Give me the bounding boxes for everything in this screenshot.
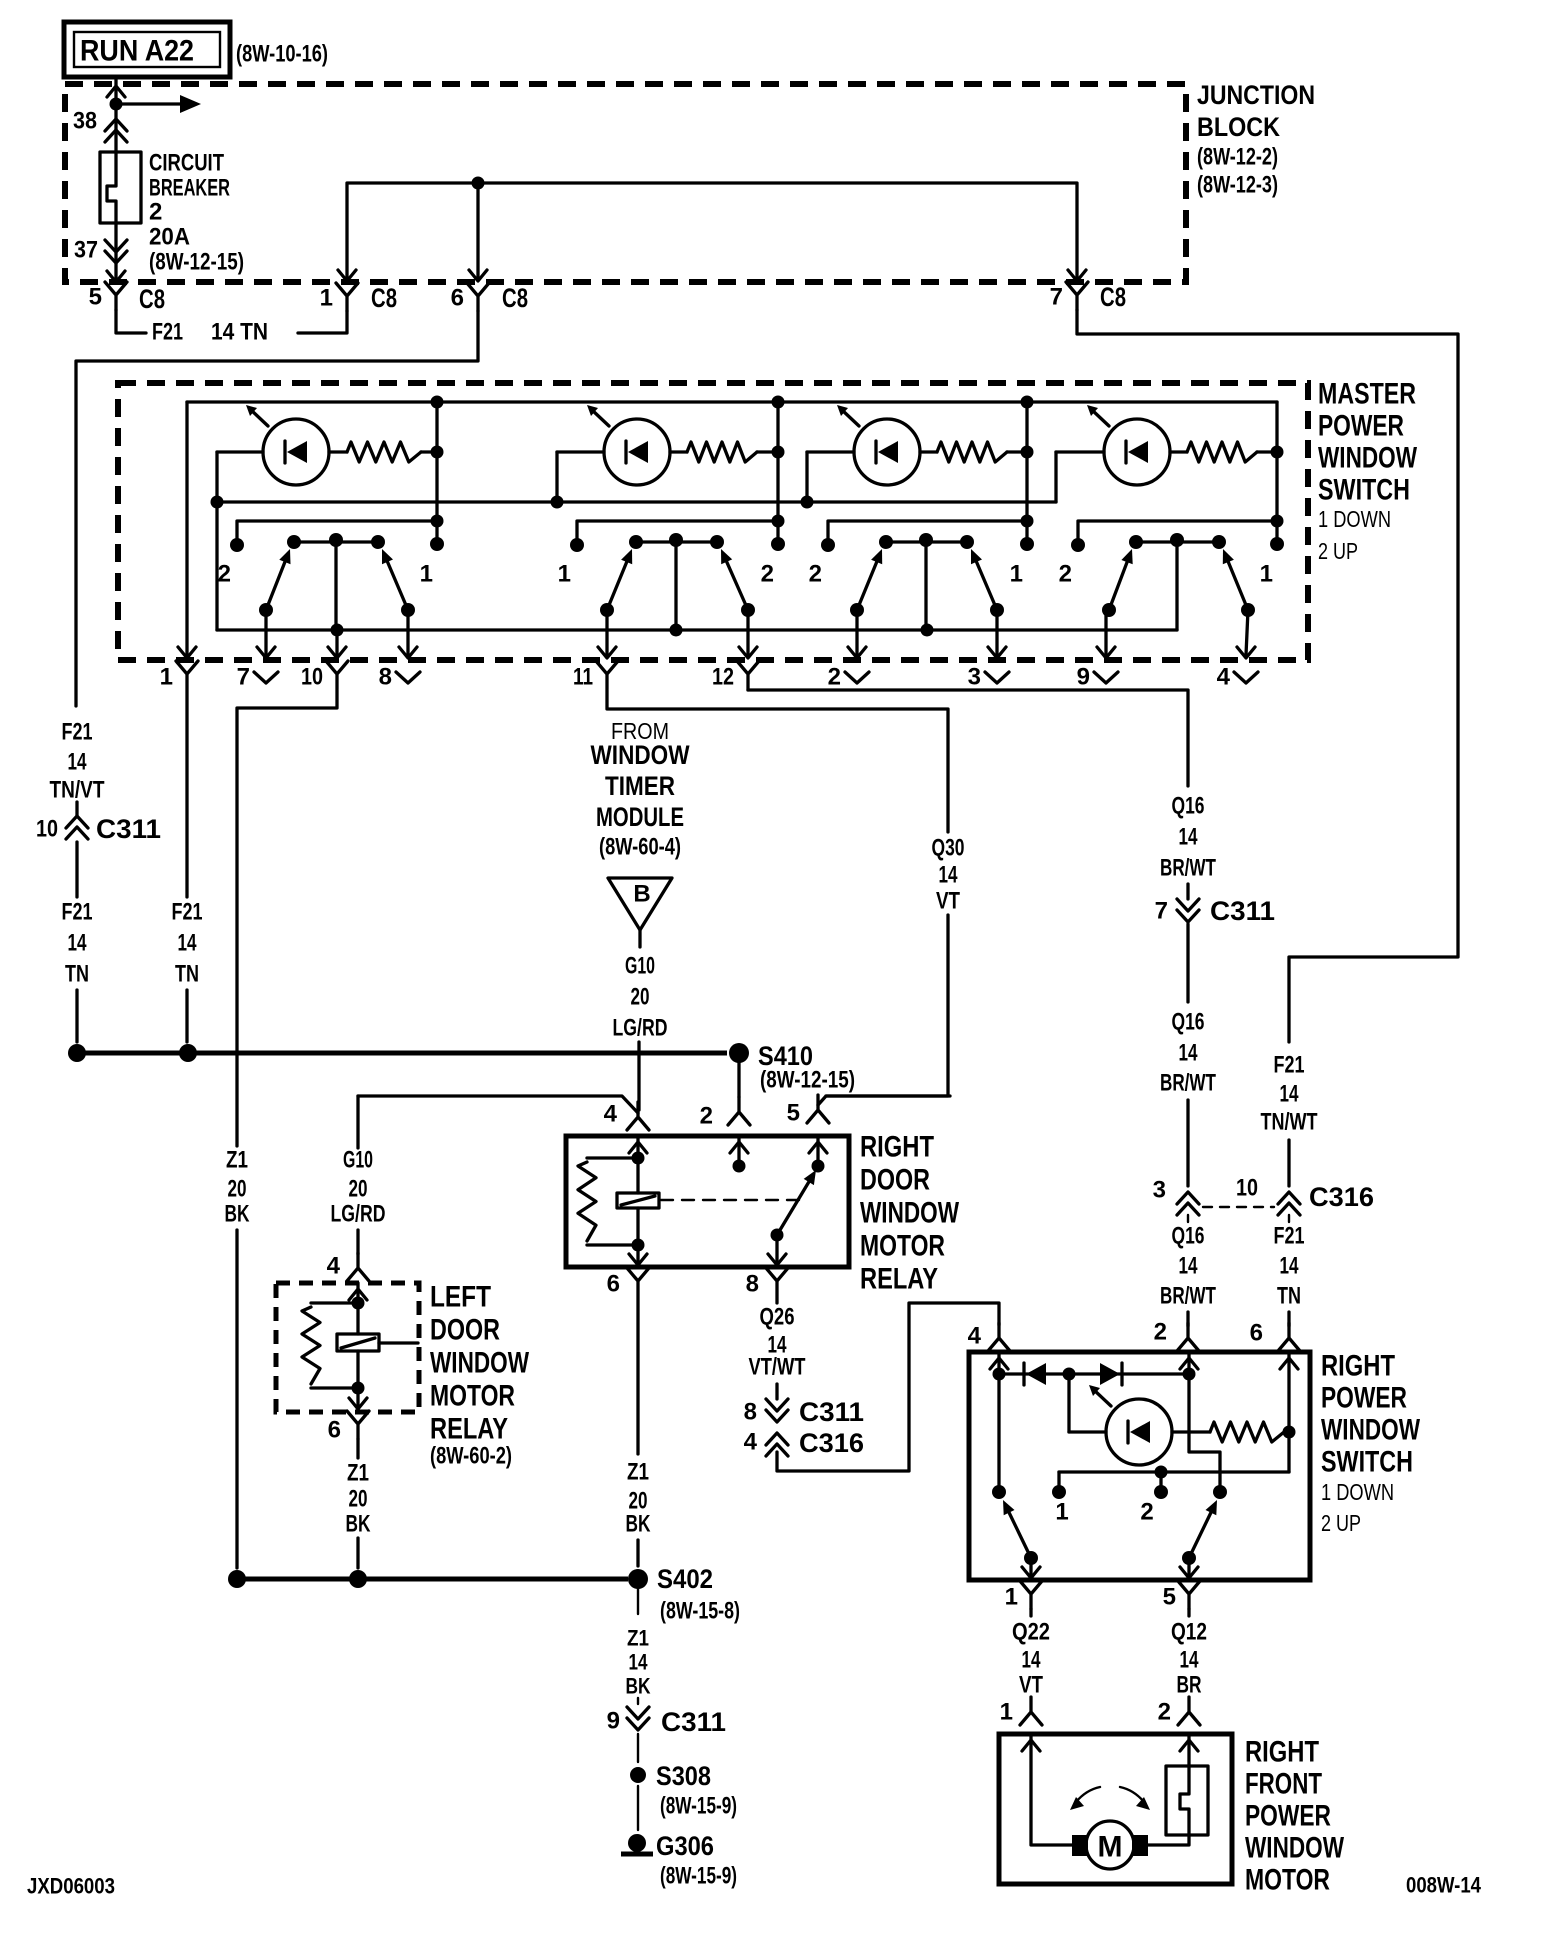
wire label F21 14 TN right bbox=[1274, 1223, 1305, 1310]
motor circuit breaker bbox=[1166, 1766, 1208, 1835]
switch contact dot left unit 4 bbox=[1071, 538, 1085, 552]
wire F21 below C316 bbox=[1288, 1215, 1290, 1222]
switch mover left unit 1 bbox=[266, 549, 291, 610]
svg-text:9: 9 bbox=[1077, 664, 1090, 691]
splice node Z1 left bbox=[228, 1570, 246, 1588]
motor armature M bbox=[1072, 1821, 1148, 1869]
svg-text:RIGHT: RIGHT bbox=[1245, 1736, 1319, 1769]
svg-text:F21: F21 bbox=[62, 899, 93, 926]
wire pin5 into switch contact bbox=[816, 1136, 819, 1166]
mover pivot dot left unit 4 bbox=[1102, 603, 1116, 617]
svg-text:14: 14 bbox=[939, 862, 958, 889]
wire Q30 down to relay pin5 bbox=[826, 915, 948, 1096]
svg-text:DOOR: DOOR bbox=[860, 1164, 930, 1197]
svg-text:Q22: Q22 bbox=[1012, 1619, 1050, 1646]
svg-text:1: 1 bbox=[160, 664, 173, 691]
svg-text:6: 6 bbox=[451, 285, 464, 312]
svg-text:8: 8 bbox=[746, 1271, 759, 1298]
arrow at edge pin right unit 4 bbox=[1237, 647, 1255, 658]
branch arrow to other circuits bbox=[116, 95, 201, 113]
connector pin 12 master switch bbox=[737, 661, 759, 689]
connector C311 cavity 7 bbox=[1177, 899, 1199, 922]
switch mover right right-switch bbox=[1189, 1500, 1217, 1558]
svg-text:RUN A22: RUN A22 bbox=[80, 35, 194, 68]
svg-text:SWITCH: SWITCH bbox=[1318, 474, 1410, 507]
wire RUN A22 to circuit breaker pin 38 bbox=[114, 77, 117, 152]
svg-text:11: 11 bbox=[573, 664, 593, 691]
switch mover right unit 4 bbox=[1223, 549, 1248, 610]
wire Q16 to C316 bbox=[1186, 1100, 1189, 1186]
wire label Z1 20 BK column bbox=[225, 1147, 250, 1228]
diode rail bbox=[999, 1372, 1189, 1375]
wire mover left to pin unit 2 bbox=[605, 610, 608, 655]
svg-text:S402: S402 bbox=[657, 1564, 713, 1594]
illumination lamp unit 3 bbox=[837, 405, 920, 485]
svg-text:2: 2 bbox=[1158, 1699, 1171, 1726]
junction node rail unit2 bbox=[551, 496, 564, 509]
svg-text:C311: C311 bbox=[96, 814, 161, 844]
svg-text:BK: BK bbox=[346, 1511, 371, 1538]
wire Z1 to S308 bbox=[637, 1734, 639, 1762]
connector pin 1 right switch bbox=[1020, 1581, 1042, 1609]
svg-text:C311: C311 bbox=[661, 1707, 726, 1737]
connector pin 5 right relay bbox=[807, 1095, 829, 1123]
right power window switch box bbox=[969, 1352, 1310, 1580]
wire F21 below C311 bbox=[75, 842, 78, 897]
svg-text:14 TN: 14 TN bbox=[211, 319, 268, 346]
mover pivot dot left bbox=[1024, 1551, 1038, 1565]
wire lamp feed left drop unit 1 bbox=[215, 452, 218, 630]
splice S410 bbox=[729, 1043, 749, 1063]
circuit breaker label bbox=[149, 150, 244, 276]
svg-text:10: 10 bbox=[301, 664, 323, 691]
resistor unit 1 bbox=[347, 442, 421, 462]
svg-text:(8W-15-8): (8W-15-8) bbox=[660, 1598, 740, 1625]
svg-text:LG/RD: LG/RD bbox=[331, 1201, 386, 1228]
svg-text:SWITCH: SWITCH bbox=[1321, 1446, 1413, 1479]
connector pin 8 master switch bbox=[396, 672, 420, 683]
switch contact dot 2 bbox=[1154, 1485, 1168, 1499]
motor rotation arrows bbox=[1070, 1787, 1150, 1810]
junction left relay coil bottom bbox=[352, 1382, 365, 1395]
wire pin2 jog to contact bbox=[1189, 1374, 1220, 1492]
rocker bar unit 4 bbox=[1136, 540, 1219, 543]
svg-text:1: 1 bbox=[1005, 1584, 1018, 1611]
svg-text:Q12: Q12 bbox=[1171, 1619, 1207, 1646]
svg-text:14: 14 bbox=[68, 749, 87, 776]
switch contact dot right unit 1 bbox=[430, 537, 444, 551]
wire F21 to splice left bbox=[75, 990, 78, 1042]
switch mover left right-switch bbox=[1003, 1500, 1031, 1558]
ground G306 bbox=[621, 1834, 653, 1854]
wire mover right to pin unit 1 bbox=[406, 610, 409, 655]
wire Z1 stub above C311 bbox=[637, 1698, 639, 1704]
arrow at junction block edge C8-1 bbox=[338, 270, 356, 281]
rocker bar unit 2 bbox=[636, 540, 717, 543]
right front power window motor box bbox=[999, 1734, 1232, 1884]
wire to lamp unit 4 bbox=[1056, 450, 1104, 453]
wire to lamp unit 3 bbox=[807, 450, 854, 453]
svg-text:008W-14: 008W-14 bbox=[1406, 1873, 1482, 1898]
wire breaker to armature bbox=[1148, 1835, 1189, 1845]
wire Z1 below S402 bbox=[637, 1589, 639, 1614]
svg-text:14: 14 bbox=[1280, 1253, 1299, 1280]
wire S410 to relay pin 2 bbox=[737, 1063, 740, 1097]
svg-text:MODULE: MODULE bbox=[596, 802, 684, 832]
wire label Z1 14 BK bbox=[626, 1626, 651, 1699]
master power window switch label bbox=[1318, 378, 1418, 565]
svg-text:C311: C311 bbox=[1210, 896, 1275, 926]
switch mover right unit 2 bbox=[721, 549, 748, 610]
fuse source box RUN A22 bbox=[64, 22, 230, 77]
svg-text:1: 1 bbox=[1010, 561, 1023, 588]
svg-text:4: 4 bbox=[604, 1101, 618, 1128]
wire Q16 stub bbox=[1186, 884, 1189, 899]
svg-text:2: 2 bbox=[1140, 1499, 1153, 1526]
arrow out of relay pin 6 bbox=[629, 1254, 647, 1265]
rocker bar unit 3 bbox=[886, 540, 967, 543]
switch contact dot common left bbox=[992, 1485, 1006, 1499]
connector C316 cavity 3 bbox=[1177, 1192, 1199, 1215]
wire resistor to vertical unit 2 bbox=[757, 450, 778, 453]
arrow at edge pin left unit 1 bbox=[257, 647, 275, 658]
wire label G10 20 LG/RD left bbox=[331, 1147, 386, 1228]
wire label Z1 20 BK left relay bbox=[346, 1460, 371, 1538]
wire label Q22 14 VT bbox=[1012, 1619, 1050, 1699]
junction diode rail right bbox=[1183, 1368, 1196, 1381]
wire pin2 into diode rail bbox=[1187, 1352, 1190, 1374]
svg-text:RELAY: RELAY bbox=[860, 1263, 938, 1296]
wire Z1 to S402 bbox=[636, 1540, 639, 1566]
wire Q22 stub bbox=[1029, 1609, 1032, 1616]
connector pin 7 master switch bbox=[254, 672, 278, 683]
svg-text:Q16: Q16 bbox=[1172, 1009, 1205, 1036]
svg-text:JUNCTION: JUNCTION bbox=[1197, 80, 1315, 110]
svg-text:5: 5 bbox=[1163, 1584, 1176, 1611]
svg-text:8: 8 bbox=[744, 1399, 757, 1426]
wire label Q16 14 BR/WT upper bbox=[1160, 793, 1216, 882]
svg-text:1: 1 bbox=[1260, 561, 1273, 588]
svg-text:MOTOR: MOTOR bbox=[1245, 1864, 1330, 1897]
junction node resistor unit 4 bbox=[1271, 446, 1284, 459]
wire arm to pin 8 bbox=[775, 1235, 778, 1267]
wire Z1 from pin10 jog left down bbox=[237, 690, 337, 1146]
svg-text:3: 3 bbox=[968, 664, 981, 691]
wire label Q26 14 VT/WT bbox=[749, 1304, 806, 1381]
svg-text:(8W-12-3): (8W-12-3) bbox=[1197, 172, 1278, 199]
svg-text:14: 14 bbox=[178, 930, 197, 957]
svg-text:C316: C316 bbox=[1309, 1182, 1374, 1212]
arrow at junction block edge pin 37 bbox=[107, 271, 125, 282]
resistor unit 3 bbox=[937, 442, 1007, 462]
svg-text:14: 14 bbox=[1179, 1040, 1198, 1067]
svg-text:RIGHT: RIGHT bbox=[860, 1131, 934, 1164]
wire label G10 20 LG/RD bbox=[613, 953, 668, 1042]
svg-text:CIRCUIT: CIRCUIT bbox=[149, 150, 224, 177]
wire to lamp unit 2 bbox=[557, 450, 604, 453]
junction node top rail unit3 bbox=[1021, 396, 1034, 409]
arrow out of relay pin 8 bbox=[768, 1254, 786, 1265]
svg-text:Z1: Z1 bbox=[627, 1459, 649, 1486]
wire G10 branch to left relay bbox=[358, 1096, 638, 1113]
svg-text:B: B bbox=[633, 881, 650, 908]
arrow into relay pin 2 bbox=[730, 1142, 748, 1153]
window timer module label bbox=[591, 718, 690, 861]
svg-text:RELAY: RELAY bbox=[430, 1413, 508, 1446]
wire G10 branch down bbox=[356, 1096, 359, 1148]
svg-text:2: 2 bbox=[809, 561, 822, 588]
switch contact dot left unit 2 bbox=[570, 538, 584, 552]
switch mover left unit 2 bbox=[607, 549, 632, 610]
switch mover right unit 3 bbox=[971, 549, 997, 610]
svg-text:MASTER: MASTER bbox=[1318, 378, 1416, 411]
svg-text:7: 7 bbox=[237, 664, 250, 691]
svg-text:1: 1 bbox=[320, 285, 333, 312]
svg-text:VT: VT bbox=[1019, 1672, 1043, 1699]
junction node contact rail unit 3 bbox=[1021, 515, 1034, 528]
wire pin2 stub inside relay bbox=[737, 1136, 740, 1166]
junction node resistor unit 2 bbox=[772, 446, 785, 459]
junction block label bbox=[1197, 80, 1315, 199]
svg-text:Z1: Z1 bbox=[347, 1460, 369, 1487]
contact rail unit 1 bbox=[237, 521, 437, 545]
connector pin 2 master switch bbox=[845, 672, 869, 683]
wire resistor to vertical unit 1 bbox=[421, 450, 437, 453]
svg-text:WINDOW: WINDOW bbox=[860, 1197, 960, 1230]
svg-text:WINDOW: WINDOW bbox=[1318, 442, 1418, 475]
wire rocker common drop unit 3 bbox=[924, 540, 927, 630]
arrow into relay pin 4 bbox=[629, 1142, 647, 1153]
wire resistor to vertical unit 3 bbox=[1007, 450, 1027, 453]
junction node bottom rail unit2 bbox=[670, 624, 683, 637]
right front power window motor label bbox=[1245, 1736, 1345, 1897]
svg-text:TN/WT: TN/WT bbox=[1261, 1109, 1318, 1136]
connector pin 4 right switch bbox=[988, 1323, 1010, 1351]
wire F21 stub above C311 bbox=[75, 802, 78, 817]
svg-text:2 UP: 2 UP bbox=[1318, 538, 1358, 564]
svg-text:BK: BK bbox=[626, 1511, 651, 1538]
svg-text:9: 9 bbox=[607, 1708, 620, 1735]
svg-text:BREAKER: BREAKER bbox=[149, 175, 230, 202]
connector pin 4 right relay bbox=[627, 1102, 649, 1130]
svg-text:7: 7 bbox=[1155, 898, 1168, 925]
wire mover to pin 5 bbox=[1187, 1558, 1190, 1580]
svg-text:20: 20 bbox=[349, 1486, 368, 1513]
wire Q16 below C316 bbox=[1187, 1215, 1189, 1222]
svg-text:RIGHT: RIGHT bbox=[1321, 1350, 1395, 1383]
svg-text:C8: C8 bbox=[139, 284, 165, 314]
splice node Z1 middle bbox=[349, 1570, 367, 1588]
svg-text:4: 4 bbox=[968, 1323, 982, 1350]
connector pin 6 right relay bbox=[627, 1268, 649, 1296]
splice S402 bbox=[628, 1569, 648, 1589]
wire Q30 into pin 5 bbox=[818, 1096, 950, 1105]
switch contact dot left unit 1 bbox=[230, 538, 244, 552]
connector C8 cavity 1 bbox=[336, 283, 358, 311]
svg-text:37: 37 bbox=[74, 237, 98, 264]
junction coil bottom bbox=[632, 1239, 645, 1252]
resistor unit 4 bbox=[1187, 442, 1257, 462]
svg-text:14: 14 bbox=[1179, 1253, 1198, 1280]
svg-text:20: 20 bbox=[631, 984, 650, 1011]
rocker bar unit 1 bbox=[294, 540, 378, 543]
wire motor pin1 to armature bbox=[1031, 1734, 1072, 1845]
junction node contact rail unit 4 bbox=[1271, 515, 1284, 528]
double chevron pin 37 bbox=[105, 240, 127, 263]
svg-text:2: 2 bbox=[1059, 561, 1072, 588]
illumination lamp unit 2 bbox=[587, 405, 670, 485]
svg-text:(8W-60-2): (8W-60-2) bbox=[430, 1443, 512, 1470]
wire Q26 stub bbox=[775, 1297, 778, 1303]
connector C311 cavity 8 bbox=[766, 1399, 788, 1422]
svg-text:MOTOR: MOTOR bbox=[860, 1230, 945, 1263]
junction node rail unit1 bbox=[211, 496, 224, 509]
illumination common rail bbox=[217, 500, 1056, 503]
wire label Q30 14 VT bbox=[932, 835, 965, 915]
right door window motor relay label bbox=[860, 1131, 960, 1296]
wire Z1 from relay pin6 bbox=[636, 1297, 639, 1454]
arrow into junction block at RUN A22 feed bbox=[107, 86, 125, 97]
svg-text:14: 14 bbox=[629, 1650, 649, 1675]
svg-text:4: 4 bbox=[1217, 664, 1231, 691]
switch contact dot right mover bbox=[1213, 1485, 1227, 1499]
svg-text:Q30: Q30 bbox=[932, 835, 965, 862]
wire relay resistor bottom bbox=[587, 1243, 638, 1246]
svg-text:2: 2 bbox=[149, 199, 162, 226]
junction resistor right end bbox=[1283, 1426, 1296, 1439]
illumination lamp unit 4 bbox=[1087, 405, 1170, 485]
wire circuit breaker pin 37 to connector C8 bbox=[114, 223, 117, 282]
connector pin 4 left relay bbox=[347, 1253, 369, 1281]
mover pivot dot right unit 1 bbox=[401, 603, 415, 617]
wire mover left to pin unit 3 bbox=[855, 610, 858, 655]
switch common bottom rail bbox=[217, 628, 1177, 631]
wire rocker common to pin 10 unit 1 bbox=[335, 630, 338, 655]
arrow at edge pin middle unit 1 bbox=[328, 647, 346, 658]
resistor unit 2 bbox=[687, 442, 757, 462]
svg-text:JXD06003: JXD06003 bbox=[27, 1874, 115, 1899]
diode D2 cathode-right bbox=[1100, 1363, 1122, 1385]
svg-text:VT/WT: VT/WT bbox=[749, 1354, 806, 1381]
wire resistor to vertical unit 4 bbox=[1257, 450, 1277, 453]
junction node resistor unit 1 bbox=[431, 446, 444, 459]
connector C316 cavity 10 bbox=[1278, 1192, 1300, 1215]
svg-text:7: 7 bbox=[1050, 284, 1063, 311]
svg-text:2: 2 bbox=[218, 561, 231, 588]
svg-text:2: 2 bbox=[700, 1103, 713, 1130]
svg-text:F21: F21 bbox=[172, 899, 203, 926]
wire left relay coil to pin 6 bbox=[356, 1388, 359, 1410]
svg-text:BR/WT: BR/WT bbox=[1160, 855, 1216, 882]
connector pin 2 motor bbox=[1178, 1697, 1200, 1725]
connector pin 4 master switch bbox=[1234, 672, 1258, 683]
svg-text:TIMER: TIMER bbox=[605, 771, 675, 801]
wire Q12 stub2 bbox=[1188, 1697, 1190, 1700]
wire Q26 to right switch pin 4 bbox=[777, 1303, 999, 1471]
svg-text:C8: C8 bbox=[371, 283, 397, 313]
switch mover left unit 3 bbox=[857, 549, 882, 610]
wire lamp feed left drop unit 3 bbox=[805, 452, 808, 502]
wire lamp to resistor right switch bbox=[1172, 1430, 1210, 1433]
switch contact dot right unit 2 bbox=[771, 537, 785, 551]
junction node at pin 38 tap bbox=[110, 98, 123, 111]
bus wire inside junction block bbox=[347, 183, 1077, 280]
wire label Q16 14 BR/WT lower bbox=[1160, 1223, 1216, 1310]
junction node contact rail unit 2 bbox=[772, 515, 785, 528]
svg-text:8: 8 bbox=[379, 664, 392, 691]
svg-text:DOOR: DOOR bbox=[430, 1314, 500, 1347]
left door window motor relay label bbox=[430, 1281, 530, 1470]
circuit breaker 2 bbox=[100, 152, 141, 223]
left relay coil bbox=[337, 1303, 418, 1388]
svg-text:4: 4 bbox=[744, 1429, 758, 1456]
double chevron pin 38 bbox=[105, 119, 127, 142]
right door window motor relay box bbox=[566, 1136, 849, 1267]
svg-text:WINDOW: WINDOW bbox=[1321, 1414, 1421, 1447]
arrow into motor pin 2 bbox=[1180, 1740, 1198, 1751]
svg-text:F21: F21 bbox=[62, 719, 93, 746]
junction coil top bbox=[632, 1152, 645, 1165]
stub pin12 bbox=[746, 688, 749, 691]
svg-text:POWER: POWER bbox=[1318, 410, 1404, 443]
svg-text:1: 1 bbox=[420, 561, 433, 588]
wire right vertical unit 2 bbox=[776, 402, 779, 544]
splice S308 bbox=[630, 1767, 646, 1783]
contact rail unit 4 bbox=[1078, 521, 1277, 545]
wire left relay resistor bottom bbox=[311, 1386, 358, 1389]
svg-text:VT: VT bbox=[936, 888, 960, 915]
stub contact 2 bbox=[1159, 1472, 1162, 1492]
svg-text:14: 14 bbox=[1022, 1647, 1041, 1674]
connector C311 cavity 10 bbox=[66, 816, 88, 839]
wire label Q12 14 BR bbox=[1171, 1619, 1207, 1699]
splice bus line to S410 bbox=[77, 1051, 727, 1056]
svg-text:14: 14 bbox=[68, 930, 87, 957]
svg-text:(8W-12-15): (8W-12-15) bbox=[149, 249, 244, 276]
wire pin6 vertical bbox=[1287, 1352, 1290, 1472]
relay switch arm bbox=[777, 1170, 816, 1235]
connector pin 1 master switch bbox=[176, 661, 198, 689]
svg-text:2: 2 bbox=[1154, 1319, 1167, 1346]
wire pin1 feed vertical bbox=[185, 402, 188, 655]
wire Z1 down to ground splice bbox=[235, 1230, 238, 1568]
wire G10 to left relay pin4 bbox=[356, 1230, 359, 1254]
svg-text:TN/VT: TN/VT bbox=[50, 777, 105, 804]
wire right vertical unit 3 bbox=[1025, 402, 1028, 544]
wire pin4 into left relay bbox=[356, 1283, 359, 1303]
svg-text:5: 5 bbox=[787, 1100, 800, 1127]
illumination lamp right switch bbox=[1089, 1385, 1172, 1465]
splice bus line to S402 bbox=[237, 1577, 628, 1582]
wire mover right to pin unit 2 bbox=[746, 610, 749, 655]
wire to left relay resistor bbox=[311, 1301, 358, 1304]
wire Q16 below C311 bbox=[1186, 924, 1189, 1002]
svg-text:(8W-12-2): (8W-12-2) bbox=[1197, 144, 1278, 171]
wire F21 from C8-7 down right side bbox=[1077, 310, 1458, 1042]
arrow out of left relay pin 6 bbox=[349, 1398, 367, 1409]
wire Q30 from pin11 bbox=[607, 690, 948, 832]
relay resistor bbox=[578, 1162, 596, 1241]
svg-text:F21: F21 bbox=[1274, 1052, 1305, 1079]
wire to lamp right switch bbox=[1069, 1430, 1106, 1433]
svg-text:Q26: Q26 bbox=[760, 1304, 795, 1331]
dashed link between C316 halves bbox=[1203, 1206, 1274, 1208]
wire lamp feed left drop unit 2 bbox=[555, 452, 558, 502]
wire F21 pin1 down bbox=[185, 690, 188, 897]
wire motor pin2 to breaker bbox=[1187, 1734, 1190, 1766]
connector C8 cavity 5 bbox=[105, 282, 127, 310]
wire Z1 to ground splice bbox=[356, 1538, 359, 1568]
